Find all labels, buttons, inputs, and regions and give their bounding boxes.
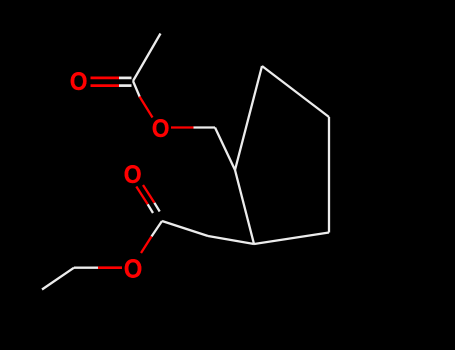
- ring bond T-TR: [262, 66, 329, 117]
- svg-text:O: O: [152, 116, 170, 143]
- bond C2-O4 red half: [141, 237, 152, 254]
- double bond O3=C2 red halves: [136, 185, 154, 204]
- bond C1-O2 white half: [133, 81, 140, 98]
- bond B-CH2b: [208, 236, 254, 244]
- bond O4-CH2e red half: [98, 266, 122, 269]
- bond CH2(V1)-C(V2): [215, 128, 235, 171]
- svg-text:O: O: [70, 69, 88, 96]
- bond C1-O2 red half: [140, 97, 153, 118]
- ring bond BR-B: [254, 233, 329, 245]
- double bond C1=O1 white half: [119, 78, 132, 86]
- ring bond TR-BR (right vertical): [328, 117, 330, 233]
- bond CH2e-CH3e (ethyl methyl): [42, 268, 74, 290]
- bond C1-CH3 (acetyl methyl): [133, 34, 161, 82]
- svg-text:O: O: [124, 161, 142, 189]
- bond O4-CH2e white half: [74, 267, 98, 269]
- bond O2-CH2 red half: [171, 126, 194, 128]
- bond C2-O4 white half: [152, 221, 163, 237]
- svg-text:O: O: [124, 256, 142, 284]
- double bond C1=O1 red half: [91, 78, 120, 86]
- ring bond V2-T: [235, 66, 262, 170]
- bond CH2b-C2 (ester carbonyl carbon): [162, 221, 208, 236]
- bond O2-CH2 white half: [194, 126, 216, 128]
- double bond O3=C2 white halves: [148, 203, 160, 213]
- ring bond B-V2: [235, 170, 254, 244]
